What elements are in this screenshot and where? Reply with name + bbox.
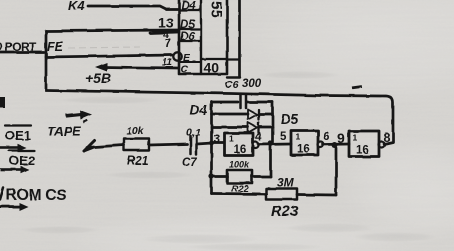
svg-text:300: 300 xyxy=(242,78,262,90)
svg-text:4: 4 xyxy=(255,132,262,144)
svg-text:1: 1 xyxy=(296,132,301,142)
svg-text:OE1: OE1 xyxy=(5,128,31,143)
svg-text:1: 1 xyxy=(229,134,234,144)
svg-text:40: 40 xyxy=(204,60,220,76)
svg-text:55: 55 xyxy=(208,1,225,18)
svg-text:3: 3 xyxy=(214,134,220,146)
svg-text:16: 16 xyxy=(297,144,310,156)
svg-text:D4: D4 xyxy=(181,0,196,12)
svg-text:D5: D5 xyxy=(180,19,195,31)
svg-text:+5B: +5B xyxy=(85,70,111,86)
svg-text:0,1: 0,1 xyxy=(186,127,201,139)
svg-text:R21: R21 xyxy=(127,156,148,168)
svg-text:6: 6 xyxy=(323,131,329,143)
svg-text:C6: C6 xyxy=(225,79,239,91)
svg-text:11: 11 xyxy=(162,58,173,69)
svg-text:D6: D6 xyxy=(180,31,195,43)
svg-text:10k: 10k xyxy=(126,125,145,137)
svg-text:TAPE: TAPE xyxy=(47,124,81,139)
svg-text:FE: FE xyxy=(47,40,64,54)
svg-text:C7: C7 xyxy=(182,157,197,169)
svg-text:5: 5 xyxy=(280,131,287,143)
svg-text:R22: R22 xyxy=(231,184,249,195)
svg-text:16: 16 xyxy=(234,145,247,157)
svg-text:R23: R23 xyxy=(271,203,299,220)
svg-text:0 PORT: 0 PORT xyxy=(0,40,37,54)
svg-text:C: C xyxy=(181,64,189,76)
svg-text:OE2: OE2 xyxy=(9,153,35,168)
svg-text:9: 9 xyxy=(337,130,345,146)
svg-text:E: E xyxy=(183,52,191,64)
svg-text:8: 8 xyxy=(383,131,390,145)
svg-text:ROM CS: ROM CS xyxy=(6,187,66,204)
svg-text:100k: 100k xyxy=(229,160,250,170)
svg-text:D4: D4 xyxy=(190,103,208,118)
svg-text:16: 16 xyxy=(356,145,369,157)
svg-text:K4: K4 xyxy=(68,0,85,13)
svg-text:D5: D5 xyxy=(281,112,299,127)
svg-text:1: 1 xyxy=(353,133,358,143)
svg-text:7: 7 xyxy=(165,39,171,51)
svg-text:3M: 3M xyxy=(277,176,295,190)
